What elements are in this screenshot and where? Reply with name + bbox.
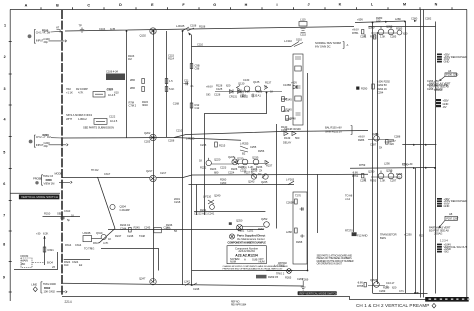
resistor R112 pair xyxy=(165,79,174,92)
svg-text:L290: L290 xyxy=(384,162,390,166)
svg-text:C168: C168 xyxy=(173,102,180,106)
svg-text:Q297: Q297 xyxy=(370,278,377,282)
svg-text:R402: R402 xyxy=(44,286,51,290)
svg-text:C215: C215 xyxy=(200,143,207,147)
svg-text:680: 680 xyxy=(214,171,219,175)
Tek cert header bold xyxy=(228,233,267,244)
bottom small ref text xyxy=(231,301,247,307)
svg-text:C223: C223 xyxy=(220,166,227,170)
wire: CH1 signal main horizontal xyxy=(65,27,354,32)
svg-text:C106 4-34: C106 4-34 xyxy=(106,70,118,74)
svg-text:K: K xyxy=(339,3,342,7)
svg-text:C210: C210 xyxy=(176,129,183,133)
svg-text:J-DIAG: J-DIAG xyxy=(434,88,442,92)
svg-text:R299: R299 xyxy=(383,286,390,290)
svg-text:R251: R251 xyxy=(238,229,245,233)
svg-text:C13-17: C13-17 xyxy=(386,281,395,285)
svg-text:910: 910 xyxy=(64,263,69,267)
trigger channel switch cluster xyxy=(229,217,270,233)
resistor R248 on trigger wire xyxy=(115,226,170,238)
wire: top L-M feed xyxy=(355,21,405,23)
svg-text:C248: C248 xyxy=(127,234,134,238)
svg-text:R114: R114 xyxy=(168,57,174,61)
wire: dac link xyxy=(64,259,90,261)
svg-text:C135R: C135R xyxy=(283,83,291,87)
resistor block dark rows xyxy=(256,275,279,279)
svg-text:9-35: 9-35 xyxy=(110,27,116,31)
svg-text:R241: R241 xyxy=(200,208,207,212)
svg-text:L280: L280 xyxy=(395,17,401,21)
label box J290 xyxy=(440,69,459,81)
svg-text:GAIN R152 2X: GAIN R152 2X xyxy=(325,130,342,134)
wire: arrow on bottom rail xyxy=(290,292,420,299)
svg-text:C205: C205 xyxy=(144,140,151,144)
capacitor C100 row xyxy=(36,37,67,44)
wire: attenuator board bus (thick vertical) xyxy=(61,10,63,296)
transistor Q202 xyxy=(144,131,156,144)
capacitor C200 row xyxy=(36,141,68,148)
switch S110 inverter xyxy=(284,38,303,47)
net list top right xyxy=(427,79,449,91)
svg-text:C71: C71 xyxy=(402,162,407,166)
svg-text:L-R105: L-R105 xyxy=(176,24,185,28)
node D1 label xyxy=(99,27,116,31)
svg-text:TP48: TP48 xyxy=(290,117,297,121)
svg-text:C269: C269 xyxy=(297,277,304,281)
svg-text:CR131: CR131 xyxy=(229,95,238,99)
resistor R200 network labels xyxy=(36,133,63,139)
capacitor C112 xyxy=(184,79,195,89)
wire: diagonal to Q emitter xyxy=(98,177,116,229)
line input labels xyxy=(43,282,67,293)
svg-text:R285: R285 xyxy=(396,27,403,31)
net label A-E1 xyxy=(194,212,208,216)
svg-text:L-R205: L-R205 xyxy=(186,137,195,141)
svg-text:F12 AND: F12 AND xyxy=(357,234,367,238)
bias network L column xyxy=(377,80,390,95)
svg-text:C314: C314 xyxy=(75,243,82,247)
switch S101 gain xyxy=(176,23,206,46)
svg-text:10-2.5: 10-2.5 xyxy=(110,119,118,123)
wire: bias vertical with arrows xyxy=(44,236,46,265)
net label +30 left of rail xyxy=(402,162,413,166)
resistor C9B on F2 line xyxy=(190,64,200,71)
svg-text:2214: 2214 xyxy=(65,300,72,304)
svg-text:SEE PARTS 1 ATTACH BOARD AND: SEE PARTS 1 ATTACH BOARD AND xyxy=(317,254,353,257)
wire: vertical L column xyxy=(372,22,374,294)
svg-text:+62V: +62V xyxy=(291,81,297,85)
svg-text:B-D4: B-D4 xyxy=(47,261,53,265)
svg-text:BD: BD xyxy=(22,262,26,266)
svg-text:2: 2 xyxy=(4,55,6,59)
svg-text:CR148 CR149: CR148 CR149 xyxy=(284,127,301,131)
inductor L247 end cluster xyxy=(184,280,200,292)
svg-text:1.5K: 1.5K xyxy=(380,179,385,183)
attenuator block A110 xyxy=(293,54,303,125)
connector J100 CH1 input xyxy=(28,30,36,44)
svg-text:T270: T270 xyxy=(295,194,301,198)
ground lug symbol xyxy=(297,277,306,290)
wire: vertical L2 column xyxy=(377,32,379,284)
net label right of driver xyxy=(345,194,353,201)
svg-text:P290 J290: P290 J290 xyxy=(446,73,459,77)
svg-text:10K C402: 10K C402 xyxy=(44,290,56,294)
svg-text:R260: R260 xyxy=(220,178,227,182)
svg-text:C324: C324 xyxy=(72,260,79,264)
svg-text:NORMAL SMV NORM: NORMAL SMV NORM xyxy=(315,41,342,45)
svg-text:C12: C12 xyxy=(195,106,200,110)
capacitor C101 on bus xyxy=(56,26,60,33)
svg-text:C244: C244 xyxy=(120,227,127,231)
svg-text:Q310: Q310 xyxy=(96,231,103,235)
svg-text:R227 91: R227 91 xyxy=(244,171,254,175)
resistor R148 xyxy=(286,116,296,121)
svg-text:R765: R765 xyxy=(357,284,364,288)
svg-text:C128: C128 xyxy=(214,93,221,97)
svg-text:U310B: U310B xyxy=(83,231,91,235)
resistor R115 xyxy=(142,100,148,107)
node +8V label xyxy=(91,168,111,176)
svg-text:MODE: MODE xyxy=(55,171,63,175)
svg-text:R310: R310 xyxy=(44,212,51,216)
CH1 preamp dense cluster xyxy=(215,78,282,99)
resistor R310 row xyxy=(44,209,74,218)
svg-text:L-R255: L-R255 xyxy=(240,142,249,146)
svg-text:DELAY: DELAY xyxy=(283,141,292,145)
switch S201 xyxy=(168,129,195,143)
connector J300 ext trigger xyxy=(33,175,43,185)
svg-text:C265R: C265R xyxy=(286,201,294,205)
svg-text:9: 9 xyxy=(3,275,5,279)
svg-text:R290: R290 xyxy=(361,87,368,91)
svg-text:2X: 2X xyxy=(259,169,262,173)
svg-text:BIAS: BIAS xyxy=(380,236,386,240)
svg-text:A23.A2.R1234: A23.A2.R1234 xyxy=(235,253,258,257)
svg-text:AT: AT xyxy=(56,26,60,30)
delay driver row Q286 xyxy=(358,132,401,150)
wire: K column drop xyxy=(353,175,355,233)
svg-text:C71: C71 xyxy=(399,289,404,293)
svg-text:C226: C226 xyxy=(251,167,258,171)
transistor Q247 bottom xyxy=(139,277,156,285)
wire: delay-line bridge xyxy=(205,93,267,216)
trigger amp cluster Q310 xyxy=(83,231,112,245)
connector J200 CH2 input xyxy=(29,135,36,147)
svg-text:A: A xyxy=(244,258,246,262)
wire: arrows on top rail xyxy=(385,20,417,23)
svg-text:X10: X10 xyxy=(114,90,119,94)
svg-text:TP-D2: TP-D2 xyxy=(91,168,99,172)
svg-text:Q295: Q295 xyxy=(386,169,393,173)
svg-text:C208: C208 xyxy=(168,139,175,143)
paraphase amp text xyxy=(325,126,352,135)
connector P291 stack xyxy=(437,52,467,63)
svg-text:G: G xyxy=(213,3,216,7)
svg-text:1K: 1K xyxy=(199,159,202,163)
trigger path labels xyxy=(65,243,94,251)
svg-text:C288: C288 xyxy=(394,135,401,139)
svg-text:C292 5X: C292 5X xyxy=(377,83,387,87)
svg-text:C110: C110 xyxy=(197,42,203,46)
mid switch cluster S201 lower xyxy=(240,142,265,156)
Tek quality logo xyxy=(229,234,234,239)
wire: driver bottom stub xyxy=(194,211,265,213)
svg-text:R321: R321 xyxy=(48,248,55,252)
svg-text:C108: C108 xyxy=(190,23,197,27)
connector P296 stack xyxy=(437,197,467,208)
svg-text:R137: R137 xyxy=(265,81,272,85)
svg-text:GND: GND xyxy=(444,204,450,208)
svg-text:1: 1 xyxy=(4,24,6,28)
svg-text:R128: R128 xyxy=(216,84,223,88)
svg-text:2X: 2X xyxy=(52,265,55,269)
DAC box dashed xyxy=(21,254,44,268)
wire: mid long horizontal H-N xyxy=(192,173,368,176)
svg-text:WHT: WHT xyxy=(66,117,72,121)
delay line driver cluster xyxy=(220,178,227,186)
svg-text:1K: 1K xyxy=(270,90,273,94)
svg-text:TRIG R400: TRIG R400 xyxy=(43,282,56,286)
svg-text:TRIG C3: TRIG C3 xyxy=(43,174,54,178)
svg-text:D135 A1: D135 A1 xyxy=(251,94,261,98)
wire: vertical N column xyxy=(435,22,437,294)
svg-text:20p: 20p xyxy=(44,40,49,44)
svg-text:Q286: Q286 xyxy=(372,132,379,136)
static note xyxy=(278,262,287,265)
switch L-F263 xyxy=(286,178,295,185)
svg-text:C1222 A-E1: C1222 A-E1 xyxy=(194,212,208,216)
resistor R145 ladder xyxy=(282,97,292,112)
svg-text:D: D xyxy=(119,3,122,7)
svg-text:C251: C251 xyxy=(247,229,254,233)
label box P297 xyxy=(439,212,459,228)
svg-text:R133 1.2K: R133 1.2K xyxy=(238,90,250,94)
svg-text:C98: C98 xyxy=(195,67,200,71)
svg-text:C104: C104 xyxy=(99,27,106,31)
svg-text:N: N xyxy=(435,2,438,6)
dark blob C106 trimmer xyxy=(106,70,125,81)
svg-text:C299: C299 xyxy=(379,289,386,293)
wire: vertical I2 short xyxy=(317,175,319,234)
wire: vertical F column xyxy=(182,31,184,285)
svg-text:C291: C291 xyxy=(360,179,367,183)
svg-text:R136: R136 xyxy=(256,90,263,94)
svg-text:RT270: RT270 xyxy=(345,229,353,233)
svg-text:Q245: Q245 xyxy=(261,180,268,184)
svg-text:C: C xyxy=(87,3,90,7)
input protection network labels row2 xyxy=(66,113,118,130)
svg-text:R149: R149 xyxy=(284,136,291,140)
wire: delay line double vertical a xyxy=(420,10,422,298)
svg-text:Z8R: Z8R xyxy=(130,78,135,82)
svg-text:P297 J297: P297 J297 xyxy=(446,217,459,221)
svg-text:3: 3 xyxy=(3,87,5,91)
film strip bar bottom right xyxy=(425,297,469,302)
svg-text:5.1K: 5.1K xyxy=(169,87,174,91)
wire: cert to driver xyxy=(266,270,292,272)
svg-text:L226: L226 xyxy=(241,166,247,170)
svg-text:1K: 1K xyxy=(108,237,111,241)
connector J400 line input xyxy=(31,282,42,293)
svg-text:R256: R256 xyxy=(258,149,265,153)
wire: mode switch stub xyxy=(43,216,81,218)
net label Z219 xyxy=(174,197,181,204)
net list top right xyxy=(429,82,451,92)
output driver block xyxy=(286,192,307,264)
svg-text:620: 620 xyxy=(392,286,397,290)
svg-text:C125: C125 xyxy=(216,87,223,91)
svg-text:Q290: Q290 xyxy=(368,170,375,174)
capacitor C312 xyxy=(60,216,70,222)
svg-text:R317: R317 xyxy=(93,241,100,245)
svg-text:TP: TP xyxy=(79,24,83,28)
wire: Q217 collector xyxy=(156,175,192,178)
preamp upper labels xyxy=(206,84,231,97)
svg-text:5: 5 xyxy=(3,151,5,155)
connector P298 stack xyxy=(437,242,467,253)
wire: vertical I column long xyxy=(307,73,309,271)
svg-text:C248: C248 xyxy=(193,287,200,291)
svg-text:1K: 1K xyxy=(71,214,74,218)
svg-text:Q247: Q247 xyxy=(139,277,146,281)
svg-text:R294 1K: R294 1K xyxy=(377,87,387,91)
svg-text:L-F110: L-F110 xyxy=(284,39,292,43)
svg-text:R300: R300 xyxy=(46,178,53,182)
wire: bottom ground bus xyxy=(62,297,467,300)
svg-text:R245: R245 xyxy=(134,226,141,230)
svg-text:5X: 5X xyxy=(264,160,267,164)
svg-text:5X: 5X xyxy=(379,146,382,150)
coax connector P110 on CH1 wire xyxy=(299,18,307,37)
svg-text:LINE: LINE xyxy=(31,283,37,287)
svg-text:+1 1K: +1 1K xyxy=(66,90,73,94)
resistor R215 xyxy=(200,142,226,148)
svg-text:620: 620 xyxy=(166,227,171,231)
svg-text:620: 620 xyxy=(403,32,408,36)
svg-text:C282: C282 xyxy=(425,17,432,21)
svg-text:4.7K: 4.7K xyxy=(78,90,83,94)
svg-text:L-F210: L-F210 xyxy=(203,195,212,199)
svg-text:INV GAIN DC: INV GAIN DC xyxy=(315,45,331,49)
wire: trigger signal long xyxy=(108,229,264,231)
wire: vertical H column xyxy=(276,124,278,229)
CH2 preamp dense cluster xyxy=(236,156,273,173)
svg-text:NUM: NUM xyxy=(230,259,237,263)
wire: vertical M column xyxy=(405,22,407,293)
svg-text:TO TRIG: TO TRIG xyxy=(84,247,94,251)
mid right resistor stack xyxy=(356,84,374,91)
svg-text:R286: R286 xyxy=(358,138,365,142)
svg-text:C120: C120 xyxy=(107,88,114,92)
svg-text:C317: C317 xyxy=(104,172,111,176)
trimmer box C120 xyxy=(93,88,113,98)
svg-text:VERTICAL MODE SWITCH: VERTICAL MODE SWITCH xyxy=(21,195,58,199)
svg-text:PROBE: PROBE xyxy=(33,177,42,181)
svg-text:H: H xyxy=(245,3,248,7)
svg-text:Q130: Q130 xyxy=(238,82,245,86)
svg-text:Q225: Q225 xyxy=(228,155,235,159)
svg-text:301K: 301K xyxy=(142,103,148,107)
svg-text:J-14: J-14 xyxy=(345,197,350,201)
svg-text:L-F263: L-F263 xyxy=(286,178,295,182)
resistor R140 xyxy=(281,125,288,132)
svg-text:L268: L268 xyxy=(286,230,292,234)
svg-text:B: B xyxy=(56,3,59,7)
svg-text:C145: C145 xyxy=(286,98,293,102)
wire: trigger pickoff horizontal xyxy=(101,249,159,271)
svg-text:CH 1 & CH 2 VERTICAL PREAMP: CH 1 & CH 2 VERTICAL PREAMP xyxy=(356,303,429,308)
svg-text:SUB: SUB xyxy=(252,258,258,262)
svg-text:R268: R268 xyxy=(296,240,303,244)
svg-text:REF VERTICAL MODE SWITCH: REF VERTICAL MODE SWITCH xyxy=(300,291,338,295)
svg-text:SIG: SIG xyxy=(206,93,210,97)
svg-text:A: A xyxy=(347,43,349,47)
svg-text:R226: R226 xyxy=(231,167,238,171)
wire: CH2 signal horizontal xyxy=(63,137,174,140)
wire: drop to delay xyxy=(189,184,295,186)
svg-text:S6T2 A NORM 3 OFF2: S6T2 A NORM 3 OFF2 xyxy=(66,113,93,117)
svg-text:+30V R292: +30V R292 xyxy=(377,80,390,84)
svg-text:HF2: HF2 xyxy=(66,87,71,91)
svg-text:R7B1: R7B1 xyxy=(352,31,359,35)
svg-text:R237: R237 xyxy=(266,164,273,168)
svg-text:Q102: Q102 xyxy=(140,33,147,37)
trigger pickoff transistors xyxy=(199,155,238,170)
svg-text:-SIG: -SIG xyxy=(444,250,449,254)
wire: delay line double vertical b xyxy=(423,10,425,298)
svg-text:Q240: Q240 xyxy=(214,194,221,198)
svg-text:L110: L110 xyxy=(300,18,306,22)
svg-text:.01: .01 xyxy=(190,84,194,88)
bottom band output stage xyxy=(357,278,404,293)
wire: vertical E column Q1 chain xyxy=(153,31,155,282)
note block xyxy=(317,254,354,265)
svg-text:-8.6V: -8.6V xyxy=(352,171,358,175)
svg-text:R222: R222 xyxy=(200,166,207,170)
wire: CH2 switched branch xyxy=(186,131,368,135)
diode CR110 xyxy=(291,81,297,90)
svg-text:A: A xyxy=(25,3,28,7)
resistor R100 network labels xyxy=(36,29,62,35)
svg-text:Q250: Q250 xyxy=(236,219,243,223)
svg-text:GND: GND xyxy=(444,60,450,64)
node C105 label xyxy=(128,54,179,108)
svg-text:SEE PARTS SUBMISSION: SEE PARTS SUBMISSION xyxy=(83,126,114,130)
svg-text:OR OPERATING IN SHOT: OR OPERATING IN SHOT xyxy=(317,263,343,266)
svg-text:the Maintenance Center: the Maintenance Center xyxy=(237,237,265,241)
bottom band labels xyxy=(357,233,424,240)
transistor Q304 on diagonal xyxy=(110,204,130,211)
mid wire label band xyxy=(210,166,262,177)
svg-text:C280: C280 xyxy=(411,17,418,21)
svg-text:SEL: SEL xyxy=(57,212,62,216)
svg-text:NUM: NUM xyxy=(259,259,266,263)
node bias bottom xyxy=(47,261,55,270)
svg-text:Parts Supplied Direct: Parts Supplied Direct xyxy=(237,233,265,237)
vertical output Q217 xyxy=(146,169,167,182)
svg-text:R246: R246 xyxy=(166,223,173,227)
svg-text:Q285: Q285 xyxy=(386,25,393,29)
svg-text:S110: S110 xyxy=(296,38,302,42)
svg-text:150: 150 xyxy=(376,19,381,23)
svg-text:BAL R150 +8V: BAL R150 +8V xyxy=(325,126,342,130)
wire: amplifier box top rail xyxy=(369,26,436,28)
svg-text:C133: C133 xyxy=(240,94,247,98)
svg-text:+8.6V: +8.6V xyxy=(352,28,359,32)
svg-text:1-800-2: 1-800-2 xyxy=(78,117,87,121)
svg-text:C245: C245 xyxy=(144,226,151,230)
wire: CH1 upper branch xyxy=(192,46,292,48)
